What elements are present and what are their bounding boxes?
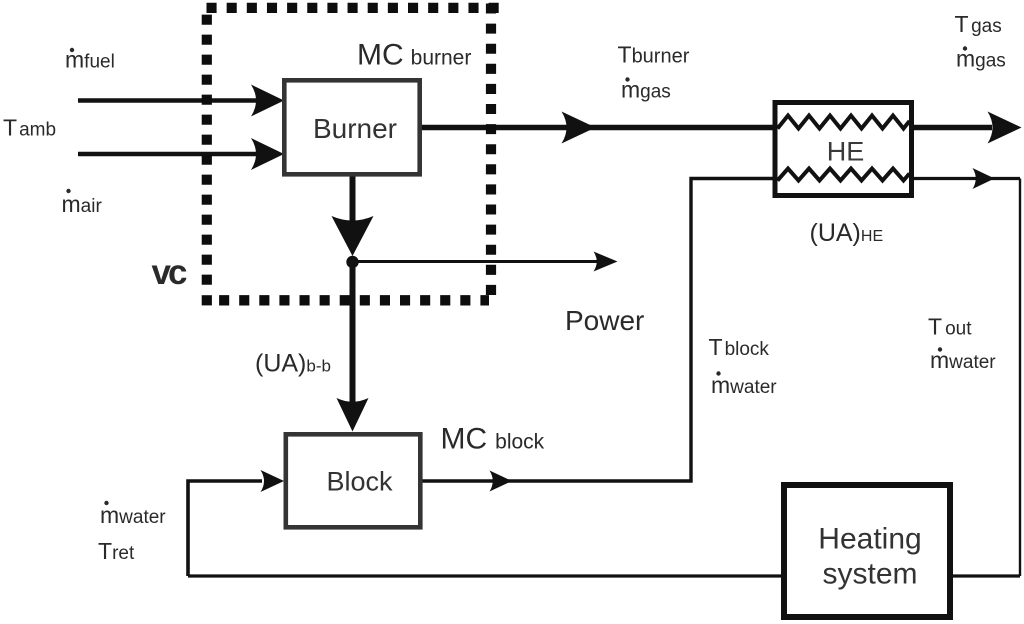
svg-text:Heating: Heating xyxy=(818,523,921,556)
svg-text:Tburner: Tburner xyxy=(618,42,690,68)
svg-text:Block: Block xyxy=(326,467,393,497)
svg-text:system: system xyxy=(822,558,917,591)
svg-text:vc: vc xyxy=(152,253,187,292)
svg-text:Power: Power xyxy=(565,305,644,336)
svg-text:Burner: Burner xyxy=(313,113,397,144)
svg-text:HE: HE xyxy=(827,137,865,167)
